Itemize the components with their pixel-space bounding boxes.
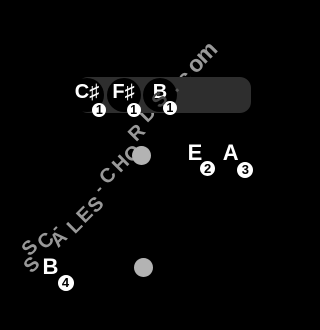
gray node upper (132, 146, 151, 165)
watermark letter L (54, 205, 96, 247)
note circle F# (107, 78, 141, 112)
watermark letter S (11, 244, 53, 286)
watermark letter c (163, 57, 205, 99)
watermark dash (34, 207, 76, 249)
watermark letter C (25, 220, 67, 262)
watermark letter H (100, 143, 142, 185)
finger badge 1 on F# (127, 103, 141, 117)
watermark letter m (185, 31, 227, 73)
finger badge 3 on A (237, 162, 253, 178)
note circle C# (70, 78, 104, 112)
watermark letter E (64, 194, 106, 236)
barre bar across strings (77, 77, 251, 113)
watermark period on bar (faint) (153, 66, 195, 108)
watermark letter S on bar (faint) (139, 79, 181, 121)
watermark letter S (75, 184, 117, 226)
finger badge 4 on B (58, 275, 74, 291)
watermark letter C2 (87, 155, 129, 197)
watermark letter O (112, 133, 154, 175)
finger badge 1 on C# (92, 103, 106, 117)
watermark letter A (38, 218, 80, 260)
gray node lower (134, 258, 153, 277)
label A (223, 142, 239, 164)
watermark letter S3 (139, 79, 181, 121)
label B (bottom) (43, 256, 59, 278)
watermark letter S (second row) (9, 227, 51, 269)
finger badge 1 on B (163, 101, 177, 115)
label E (188, 142, 203, 164)
watermark letter R (116, 112, 158, 154)
watermark letter D (127, 93, 169, 135)
finger badge 2 on E (200, 161, 215, 176)
watermark hyphen (78, 168, 120, 210)
watermark letter o (174, 43, 216, 85)
note circle B (143, 78, 177, 112)
